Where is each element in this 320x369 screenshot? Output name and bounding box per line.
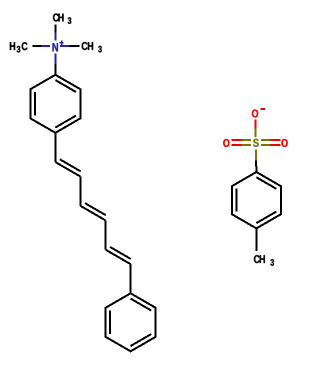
- double bond S=O right: [261, 139, 271, 141]
- double bond C3=C4: [81, 206, 106, 221]
- charge minus on O: [261, 108, 266, 110]
- bond H3C-N left: [33, 45, 42, 47]
- double bond S=O left: [232, 139, 242, 141]
- charge plus on N: [59, 42, 63, 44]
- bond C2-C3: [80, 177, 82, 206]
- atom label O right: [281, 139, 287, 147]
- ring2 double bond top-right edge: [131, 299, 152, 311]
- bond N-ring1: [54, 53, 56, 64]
- benzene ring 3 (tolyl ring): [232, 172, 281, 228]
- ring2 double bond bottom-right edge: [131, 334, 152, 346]
- double bond C5=C6: [106, 250, 131, 265]
- atom label O- (sulfonate O minus): [252, 110, 258, 118]
- benzene ring 1 (anilinium ring): [30, 75, 80, 133]
- bond N-CH3 right: [60, 45, 70, 47]
- bond O(-)-S: [255, 120, 257, 129]
- bond ring3-CH3: [255, 228, 257, 251]
- ring3 double bond left edge: [236, 189, 238, 212]
- methyl label CH3 right: [82, 42, 88, 50]
- methyl label H3C left: [10, 42, 15, 50]
- bond C6-ring2: [130, 264, 132, 293]
- ring1 double bond left edge: [34, 92, 36, 116]
- bond N-CH3 top: [54, 24, 56, 32]
- bond S-ring3: [255, 149, 257, 160]
- double bond C1=C2: [55, 162, 80, 177]
- ring3 double bond bottom-right edge: [256, 212, 276, 224]
- ring1 double bond bottom-right edge: [55, 116, 76, 128]
- methyl label CH3 top: [53, 14, 59, 22]
- methyl label CH3 tosyl: [254, 255, 260, 263]
- ring3 double bond top-right edge: [256, 177, 276, 189]
- benzene ring 2 (terminal phenyl): [106, 293, 156, 351]
- ring2 double bond left edge: [109, 310, 111, 334]
- ring1 double bond top-right edge: [55, 80, 76, 92]
- atom label O left: [223, 139, 229, 147]
- atom label S sulfur: [253, 139, 259, 147]
- bond C4-C5: [105, 220, 107, 249]
- atom label N+ (ammonium nitrogen): [52, 43, 58, 51]
- bond ring1-C1 of hexatriene: [54, 133, 56, 162]
